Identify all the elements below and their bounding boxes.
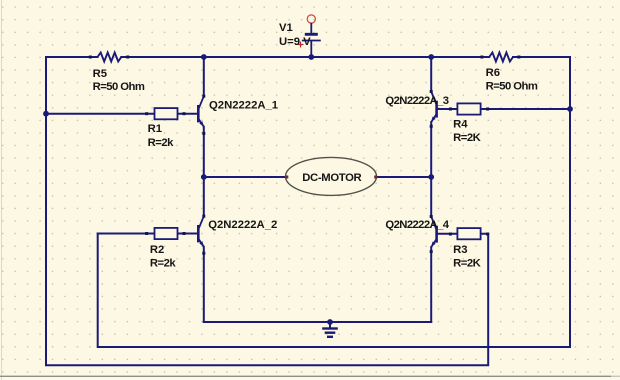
junction R4 row / right outer rail [567,106,573,112]
wire bottom ground run [204,321,431,323]
svg-text:R6: R6 [486,67,500,79]
transistor Q4 (NPN mirrored, base bar / collector diagonal / emitter arrow) [431,217,436,248]
transistor Q3 (NPN mirrored, base bar / collector diagonal / emitter arrow) [431,92,436,123]
pin Q1 emitter [202,132,205,135]
svg-text:R=50 Ohm: R=50 Ohm [486,81,538,93]
motor M1 ellipse body [286,157,377,195]
svg-text:Q2N2222A_2: Q2N2222A_2 [208,219,277,231]
junction R1 row / left outer rail [43,111,49,117]
pin Q4 collector [430,215,433,218]
pin motor left terminal [285,176,288,179]
svg-text:DC-MOTOR: DC-MOTOR [302,172,361,184]
svg-text:R=2K: R=2K [453,132,482,144]
wire Q2 emitter down to ground run [203,247,205,322]
battery V1 (DC source: open pin circle, stem, plates, red + mark) [298,15,321,57]
pin R5 right [126,56,129,59]
pin R4 left (Q3 base) [449,108,452,111]
wire motor left lead [204,176,287,178]
pin Q4 emitter [430,250,433,253]
svg-text:Q2N2222A_1: Q2N2222A_1 [209,100,278,112]
pin Q2 collector [202,215,205,218]
junction V1 minus / top rail [308,54,314,60]
resistor R3 box [457,228,480,239]
svg-text:U=9 V: U=9 V [279,36,311,48]
svg-text:V1: V1 [279,22,293,34]
wire top rail middle segment (R5 to R6, V+ net) [121,56,489,58]
pin motor right terminal [374,176,377,179]
transistor Q2 (NPN, base bar / collector diagonal / emitter arrow) [198,216,204,247]
pin Q2 emitter [202,252,205,255]
pin R4 right [486,108,489,111]
wire Q1 emitter to Q2 collector (left motor node) [203,127,205,216]
junction motor left node [201,174,207,180]
svg-text:R2: R2 [150,244,164,256]
svg-text:R=2k: R=2k [150,257,177,269]
wire motor right lead [376,176,432,178]
wire Q1 collector vertical [203,57,205,96]
transistor Q1 (NPN, base bar / collector diagonal / emitter arrow) [198,96,204,127]
svg-text:R4: R4 [453,118,468,130]
svg-text:R3: R3 [453,244,467,256]
resistor R6 zigzag [489,53,513,62]
wire ground stem [329,322,331,329]
wire left outer rail down and bottom run to R3 right rail [46,57,488,365]
svg-text:R=2k: R=2k [148,137,175,149]
svg-text:R1: R1 [148,123,162,135]
wire Q4 emitter down to ground run [430,247,432,322]
junction ground / bottom run [327,319,333,325]
pin Q1 collector [202,95,205,98]
resistor R5 zigzag [98,53,122,62]
svg-text:R=2K: R=2K [453,257,482,269]
svg-text:Q2N2222A_4: Q2N2222A_4 [385,219,449,231]
resistor R4 box [457,103,480,114]
wire R2 base row [98,233,198,235]
pin R3 right [486,233,489,236]
wire R3 base row [438,233,489,235]
resistor R2 box [155,228,178,239]
pin R2 left [145,232,148,235]
ground symbol (three bars) [322,329,338,337]
wire R4 base row [438,108,570,110]
pin R5 left [89,56,92,59]
pin Q3 emitter [430,125,433,128]
pin R1 right [183,112,186,115]
pin R6 right [517,56,520,59]
pin Q3 collector [430,90,433,93]
junction Q3 collector / top rail [428,54,434,60]
wire Q3 emitter to Q4 collector (right motor node) [430,122,432,216]
pin R6 left [480,56,483,59]
pin R3 left (Q4 base) [449,233,452,236]
svg-text:Q2N2222A_3: Q2N2222A_3 [385,95,448,107]
wire R1 base row [46,113,197,115]
wire Q3 collector vertical [430,57,432,92]
wire left inner rail down and bottom run to right outer rail [98,57,570,347]
pin R2 right [183,232,186,235]
wire top rail left segment (corner to R5) [46,56,98,58]
wire top rail right segment (R6 to corner) [513,56,570,58]
svg-text:R5: R5 [93,68,107,80]
junction Q1 collector / top rail [201,54,207,60]
svg-text:R=50 Ohm: R=50 Ohm [93,81,145,93]
junction motor right node [428,174,434,180]
resistor R1 box [155,108,178,119]
pin R1 left [145,112,148,115]
